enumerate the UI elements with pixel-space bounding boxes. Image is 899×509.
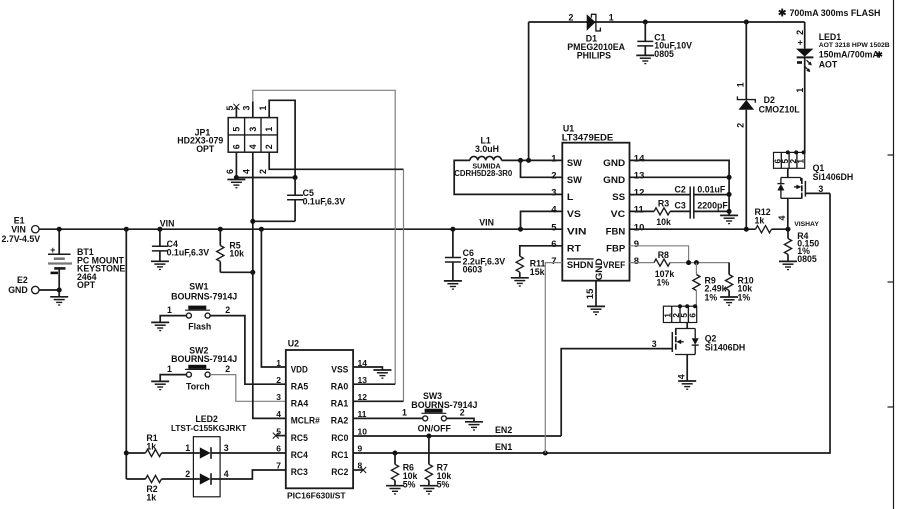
capacitor C4 [152, 229, 209, 261]
svg-text:2: 2 [736, 123, 746, 128]
wire LED2.4 to U2 RC3 [211, 470, 286, 479]
svg-text:RC0: RC0 [331, 433, 348, 443]
switch SW3 [402, 391, 477, 433]
svg-text:RC1: RC1 [331, 450, 348, 460]
IC U1 LT3479EDE [551, 124, 645, 281]
resistor R12 [755, 207, 789, 233]
svg-text:R8: R8 [658, 250, 669, 260]
node junction FBP/R8 [686, 260, 691, 265]
wire SW2 pin1 to ground [160, 375, 186, 382]
ground below JP1.6 [227, 180, 245, 188]
svg-text:CDRH5D28-3R0: CDRH5D28-3R0 [454, 169, 513, 178]
wire JP1.2 to U2 RA1 [258, 152, 404, 401]
transistor Q1 Si1406DH header [773, 152, 805, 168]
svg-text:6: 6 [231, 144, 241, 149]
svg-text:0805: 0805 [654, 49, 674, 59]
svg-text:EN1: EN1 [495, 442, 512, 452]
svg-text:RT: RT [567, 243, 582, 253]
node junction JP1.6 ground [234, 175, 239, 180]
svg-text:3: 3 [551, 188, 556, 199]
svg-text:4: 4 [248, 144, 258, 149]
ground below BT1 [50, 290, 68, 305]
capacitor C1 [637, 22, 692, 59]
svg-text:0603: 0603 [463, 265, 483, 275]
svg-text:2: 2 [551, 171, 556, 182]
capacitor C5 [287, 178, 345, 222]
wire ground rail to C5 top [236, 177, 295, 179]
svg-text:AOT: AOT [819, 60, 838, 70]
resistor R4 sense [784, 221, 819, 264]
svg-text:SW: SW [567, 175, 583, 185]
svg-text:VIN: VIN [479, 218, 494, 228]
svg-text:3: 3 [241, 106, 251, 111]
svg-text:RA4: RA4 [291, 399, 309, 409]
node junction R6 tap [393, 451, 398, 456]
resistor R1 [126, 433, 200, 456]
resistor R11 [516, 256, 545, 278]
wire U1 GND pin14 to ground riser [630, 160, 730, 215]
node junction R9 tap [694, 260, 699, 265]
svg-text:EN2: EN2 [495, 425, 512, 435]
svg-text:2: 2 [264, 144, 274, 149]
svg-text:7: 7 [276, 461, 281, 471]
wire L1 left to U1 L pin3 [454, 160, 562, 194]
svg-text:AOT 3218 HPW 1502B: AOT 3218 HPW 1502B [819, 42, 890, 49]
svg-text:10k: 10k [656, 217, 671, 227]
ground below U1 pad [587, 306, 605, 314]
ground below GND riser [720, 215, 738, 223]
IC U2 PIC16F630 [276, 339, 367, 501]
svg-text:Si1406DH: Si1406DH [705, 343, 746, 353]
diode D1 PMEG2010EA [567, 12, 625, 60]
svg-text:1k: 1k [146, 493, 156, 503]
svg-text:13: 13 [358, 375, 368, 385]
node junction R5 [218, 227, 223, 232]
svg-text:1: 1 [258, 106, 268, 111]
wire U1 FBP pin9 corner [630, 246, 689, 263]
svg-text:1: 1 [167, 305, 172, 315]
svg-text:4: 4 [241, 169, 251, 174]
wire Q1 source to R4 node [777, 198, 788, 229]
ground below SW1 [151, 322, 169, 330]
svg-text:RC2: RC2 [331, 467, 348, 477]
svg-text:LTST-C155KGJRKT: LTST-C155KGJRKT [171, 424, 246, 433]
ground below R7 [420, 486, 438, 494]
node junction R4/Q1 source [786, 227, 791, 232]
svg-text:1: 1 [167, 364, 172, 374]
resistor R5 [217, 229, 244, 272]
wire U1 VREF pin8 to R8 [630, 262, 655, 264]
wire L1 right to U1 SW pin1 [502, 159, 563, 161]
wire SW2 pin2 to U2 RA4 [210, 375, 286, 402]
node junction VS drop [518, 227, 523, 232]
svg-text:Flash: Flash [188, 322, 211, 332]
node junction VIN to LED resistors [124, 227, 129, 232]
wire JP1.4 to U2 MCLR# [241, 152, 285, 418]
svg-text:1: 1 [736, 82, 746, 87]
wire U1 SS pin12 to C2 [630, 194, 691, 196]
resistor R8 [654, 250, 674, 288]
svg-text:3: 3 [276, 392, 281, 402]
svg-text:3: 3 [224, 443, 229, 453]
svg-text:RA0: RA0 [331, 382, 349, 392]
svg-text:C2: C2 [675, 184, 686, 194]
svg-text:2: 2 [460, 408, 465, 418]
svg-text:6: 6 [276, 444, 281, 454]
svg-text:7: 7 [551, 256, 556, 267]
svg-text:150mA/700mA: 150mA/700mA [819, 50, 880, 60]
wire SW node up to D1 [528, 22, 530, 160]
resistor R10 [726, 263, 754, 303]
ground below Q2 [678, 381, 696, 389]
svg-text:10: 10 [358, 426, 368, 436]
connector JP1 [177, 118, 277, 154]
svg-text:PHILIPS: PHILIPS [577, 50, 611, 60]
svg-text:0.1uF,6.3V: 0.1uF,6.3V [167, 247, 210, 257]
svg-text:U2: U2 [288, 339, 299, 349]
wire U1 VC pin11 to R3 [630, 210, 655, 212]
svg-text:1: 1 [797, 159, 806, 164]
svg-text:0805: 0805 [797, 254, 817, 264]
switch SW2 [167, 346, 237, 392]
wire VDD drop to U2 pin 1 [261, 229, 285, 367]
svg-text:4: 4 [777, 216, 787, 221]
node junction C2/riser [727, 192, 732, 197]
svg-text:SHDN: SHDN [567, 260, 594, 270]
svg-text:VS: VS [567, 209, 581, 219]
svg-text:5%: 5% [403, 479, 416, 489]
svg-text:5: 5 [225, 106, 235, 111]
wire EN2 net RC0 to Q2 gate riser [353, 425, 561, 436]
svg-text:RA5: RA5 [291, 382, 309, 392]
node junction pin13/riser [727, 175, 732, 180]
switch SW1 [167, 281, 237, 331]
svg-text:BOURNS-7914J: BOURNS-7914J [171, 354, 237, 364]
transistor Q2 Si1406DH header [663, 306, 697, 322]
node junction R5/MCLR net [250, 270, 255, 275]
svg-text:1: 1 [402, 408, 407, 418]
wire Q2 header to mosfet drain [686, 323, 688, 329]
node junction C5/MCLR net [250, 219, 255, 224]
ground at SW3 [465, 422, 483, 430]
svg-text:OPT: OPT [196, 144, 215, 154]
svg-text:GND: GND [603, 158, 626, 168]
ground below SW2 [151, 381, 169, 389]
svg-text:14: 14 [634, 154, 645, 165]
wire C3 right to GND riser [694, 210, 729, 212]
inductor L1 [454, 136, 513, 179]
node junction SHDN/EN1 [543, 451, 548, 456]
svg-text:700mA 300ms FLASH: 700mA 300ms FLASH [790, 8, 881, 18]
svg-text:GND: GND [8, 285, 28, 295]
node junction D1 riser [526, 158, 531, 163]
pin U1.15 exposed pad [585, 281, 596, 307]
svg-text:3: 3 [652, 339, 657, 349]
wire U2 VSS to ground [353, 367, 382, 370]
svg-text:3: 3 [818, 184, 823, 194]
svg-text:PIC16F630I/ST: PIC16F630I/ST [287, 490, 346, 500]
svg-text:CMOZ10L: CMOZ10L [759, 105, 801, 115]
svg-text:2: 2 [185, 469, 190, 479]
svg-text:SW: SW [567, 158, 583, 168]
svg-text:+: + [50, 245, 55, 255]
wire R5 bottom to MCLR net [220, 271, 253, 273]
wire EN1 net RC1 to Q1 gate [353, 193, 830, 453]
wire Q1 header to mosfet drain [787, 168, 789, 177]
wire top boost rail [529, 21, 805, 23]
node junction D2 bottom [744, 227, 749, 232]
svg-text:1%: 1% [738, 292, 751, 302]
wire Q1 gate to EN1 riser [805, 184, 830, 194]
svg-text:2200pF: 2200pF [697, 201, 728, 211]
svg-text:1k: 1k [146, 442, 156, 452]
svg-text:RA1: RA1 [331, 399, 349, 409]
svg-text:10k: 10k [229, 249, 244, 259]
svg-text:SS: SS [612, 192, 625, 202]
svg-text:2: 2 [276, 375, 281, 385]
text flash note [779, 8, 881, 18]
svg-text:2: 2 [225, 305, 230, 315]
wire C2 right to GND riser [694, 194, 729, 196]
node junction Q1 drain ties [786, 150, 806, 154]
svg-text:LED1: LED1 [819, 32, 842, 42]
svg-text:E2: E2 [17, 275, 28, 285]
svg-text:5: 5 [551, 222, 557, 233]
svg-text:4: 4 [676, 374, 686, 379]
terminal E2 [8, 275, 39, 295]
node junction C5 top [293, 175, 298, 180]
svg-text:1: 1 [185, 443, 190, 453]
svg-text:MCLR#: MCLR# [291, 416, 320, 426]
svg-text:RC4: RC4 [291, 450, 308, 460]
svg-text:VIN: VIN [567, 227, 587, 237]
svg-text:3: 3 [248, 127, 258, 132]
svg-text:5%: 5% [437, 479, 450, 489]
svg-text:VREF: VREF [603, 260, 626, 270]
svg-text:9: 9 [634, 239, 639, 250]
pin U2.5 stub no-connect [273, 433, 286, 439]
node junction R1 tap [124, 451, 129, 456]
svg-text:FBN: FBN [606, 227, 626, 237]
svg-text:1%: 1% [657, 278, 670, 288]
ground at U2 VSS [373, 370, 391, 378]
pin JP1.6 to ground [225, 152, 236, 177]
svg-text:13: 13 [634, 171, 645, 182]
svg-text:3.0uH: 3.0uH [475, 144, 499, 154]
battery BT1 [48, 229, 125, 290]
svg-text:6: 6 [551, 239, 556, 250]
wire U2 RA2 to SW3 pin1 [353, 417, 423, 419]
resistor R6 [391, 453, 417, 489]
svg-text:RA2: RA2 [331, 416, 349, 426]
wire U1 RT down to R11 [520, 246, 563, 256]
resistor R3 [654, 198, 671, 227]
svg-text:L: L [567, 192, 574, 202]
ground below R4 [779, 261, 797, 269]
node junction R7 tap [426, 434, 431, 439]
svg-text:12: 12 [358, 392, 368, 402]
svg-text:OPT: OPT [77, 280, 96, 290]
svg-text:1: 1 [276, 358, 281, 368]
svg-text:BOURNS-7914J: BOURNS-7914J [171, 291, 237, 301]
svg-text:11: 11 [634, 205, 645, 216]
wire R3 to C3 [670, 210, 690, 212]
wire VIN rail [39, 228, 562, 230]
wire U1 SHDN down to EN1 [545, 263, 562, 453]
svg-text:1: 1 [609, 12, 614, 22]
node junction C3/riser [727, 209, 732, 214]
wire LED2.3 to U2 RC4 [211, 452, 286, 454]
wire Q2 gate to EN2 riser [561, 339, 672, 436]
node junction Q2 drain ties [678, 304, 697, 308]
wire E2 to battery [39, 289, 59, 291]
svg-text:9: 9 [358, 444, 363, 454]
svg-text:+: + [798, 38, 803, 48]
svg-text:FBP: FBP [606, 243, 625, 253]
LED LED2 dual [171, 414, 246, 497]
svg-text:GND: GND [594, 258, 604, 281]
ground below R11 [511, 278, 529, 286]
svg-text:6: 6 [689, 313, 698, 318]
svg-text:1: 1 [264, 127, 274, 132]
svg-text:Torch: Torch [186, 381, 210, 391]
ground below R10 [720, 297, 738, 305]
LED LED1 [795, 22, 890, 152]
transistor Q1 mosfet symbol [777, 163, 853, 199]
svg-text:10: 10 [634, 222, 645, 233]
svg-text:2: 2 [569, 12, 574, 22]
node junction C4 [157, 227, 162, 232]
transistor Q2 mosfet symbol [672, 329, 745, 355]
svg-text:6: 6 [225, 169, 235, 174]
pin JP1.5 stub no-connect [225, 104, 239, 118]
ground below C1 [636, 55, 654, 63]
wire R8 out to R9/R10 [670, 262, 729, 264]
svg-text:1: 1 [795, 88, 805, 93]
svg-text:0.01uF: 0.01uF [697, 184, 725, 194]
wire JP1.1 to ground/C5 node [258, 100, 295, 177]
wire U1 FBN pin10 to D2/R12 [630, 228, 756, 230]
svg-text:1k: 1k [755, 215, 765, 225]
svg-text:R3: R3 [658, 198, 669, 208]
svg-text:4: 4 [224, 469, 229, 479]
node junction C6 [450, 227, 455, 232]
svg-text:12: 12 [634, 188, 645, 199]
svg-text:GND: GND [603, 175, 626, 185]
wire SW1 pin1 to ground [160, 316, 186, 323]
svg-text:ON/OFF: ON/OFF [418, 423, 452, 433]
wire SW1 pin2 to U2 RA5 [210, 316, 286, 385]
wire VIN down to R1/R2 [125, 229, 127, 479]
svg-text:0.1uF,6.3V: 0.1uF,6.3V [303, 197, 346, 207]
wire SW3 pin2 to ground [446, 418, 474, 421]
svg-text:RC3: RC3 [291, 467, 308, 477]
node junction SW pins tie [518, 158, 523, 163]
capacitor C3 [675, 201, 729, 211]
svg-text:VIN: VIN [160, 218, 175, 228]
wire Q2 source to ground [676, 355, 687, 382]
capacitor C2 [675, 184, 726, 218]
wire U1 VS to VIN rail [521, 211, 563, 229]
svg-text:VC: VC [611, 209, 626, 219]
svg-text:LED2: LED2 [195, 414, 218, 424]
node junction C1 [643, 20, 648, 25]
svg-text:Si1406DH: Si1406DH [813, 172, 854, 182]
svg-text:2: 2 [795, 30, 805, 35]
sheet border right edge [888, 0, 894, 509]
svg-text:1%: 1% [705, 292, 718, 302]
svg-text:2.7V-4.5V: 2.7V-4.5V [2, 234, 41, 244]
svg-text:4: 4 [276, 409, 281, 419]
svg-text:8: 8 [634, 256, 639, 267]
node junction BT1 top [57, 227, 62, 232]
capacitor C6 [445, 229, 505, 281]
svg-text:SW1: SW1 [189, 281, 208, 291]
svg-text:VSS: VSS [331, 364, 348, 374]
svg-text:5: 5 [231, 127, 241, 132]
resistor R9 [693, 263, 727, 307]
svg-text:2: 2 [258, 169, 268, 174]
zener D2 CMOZ10L [736, 22, 801, 229]
ground below C4 [151, 261, 169, 269]
svg-text:VISHAY: VISHAY [794, 221, 819, 228]
svg-text:4: 4 [551, 205, 557, 216]
wire U1 GND pin13 [630, 176, 730, 178]
svg-text:15: 15 [585, 288, 596, 299]
svg-text:RC5: RC5 [291, 433, 308, 443]
wire C5 bottom to MCLR net [253, 220, 295, 222]
node junction BT1 bottom [57, 288, 62, 293]
svg-text:C3: C3 [675, 201, 686, 211]
wire JP1.3 to U2 RA0 [241, 90, 395, 384]
ground below C6 [444, 281, 462, 289]
node junction VDD drop [259, 227, 264, 232]
node junction D2 top [744, 20, 749, 25]
resistor R2 [126, 475, 200, 502]
resistor R7 [425, 436, 451, 489]
pin U2.8 stub no-connect [353, 467, 366, 473]
ground below R6 [386, 486, 404, 494]
svg-text:15k: 15k [530, 267, 545, 277]
svg-text:VDD: VDD [291, 364, 309, 374]
svg-text:1: 1 [551, 154, 557, 165]
wire SW pin2 riser [521, 160, 563, 177]
terminal E1 [2, 215, 41, 243]
svg-text:2: 2 [225, 364, 230, 374]
svg-text:BOURNS-7914J: BOURNS-7914J [411, 400, 477, 410]
svg-text:LT3479EDE: LT3479EDE [562, 132, 614, 143]
